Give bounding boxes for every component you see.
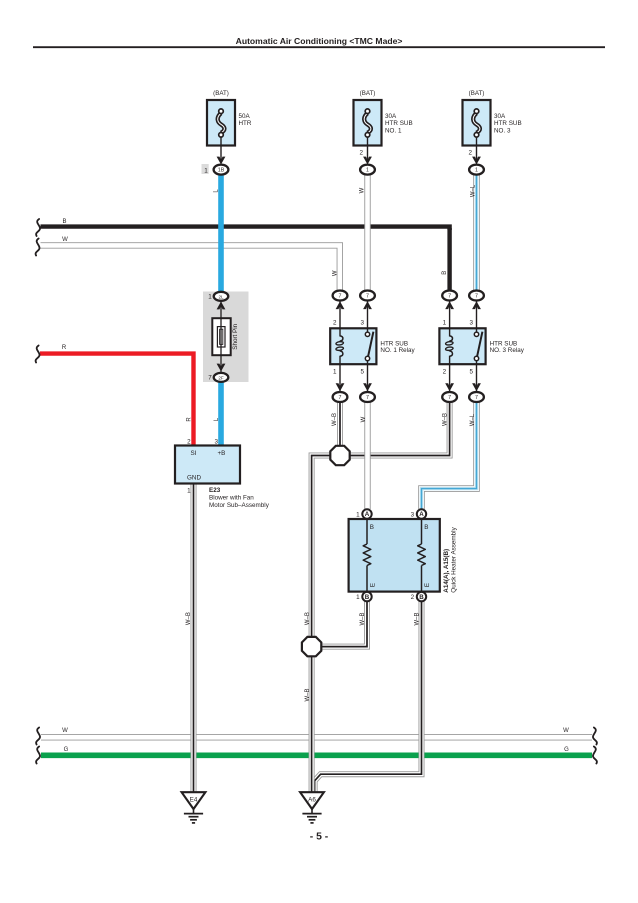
fusible link 30A HTR SUB NO. 1 [354,90,413,175]
svg-text:B: B [419,594,424,601]
svg-text:W–L: W–L [471,184,477,197]
svg-text:5: 5 [360,369,364,376]
svg-text:B: B [370,524,374,531]
wire W-B junction J1 to junction J2 [305,456,331,639]
svg-text:GND: GND [187,474,201,481]
svg-text:NO. 3: NO. 3 [494,128,511,135]
relay R1 pin2 connector [333,291,348,329]
svg-text:3: 3 [214,439,218,446]
wire W fuse HTR SUB NO.1 to relay R1 pin3 [360,174,368,293]
junction J2 [302,637,321,656]
svg-text:2: 2 [187,439,191,446]
wire W-L relay R3 pin5 to quick heater pin 3A [422,402,477,509]
svg-text:W: W [563,728,569,734]
relay R3 pin2 connector [442,364,457,402]
svg-text:7: 7 [366,294,369,300]
svg-text:7: 7 [339,294,342,300]
svg-text:(BAT): (BAT) [360,90,376,97]
heater element left [363,544,371,566]
svg-text:W: W [62,728,68,734]
wire W relay R1 pin5 to quick heater pin 1A [361,402,368,509]
svg-text:W–B: W–B [305,688,311,701]
svg-text:Blower with Fan: Blower with Fan [209,495,254,502]
svg-text:30A: 30A [494,113,506,120]
wire W-B relay R3 pin2 to junction J1 [349,402,450,456]
svg-text:E23: E23 [209,487,221,494]
svg-text:3: 3 [469,319,473,326]
short pin connector pin 1 (2L) [208,292,228,310]
svg-text:A: A [419,511,424,518]
relay R3 pin1 connector [442,291,457,329]
svg-text:(BAT): (BAT) [213,90,229,97]
svg-text:1: 1 [333,369,337,376]
svg-text:NO. 3 Relay: NO. 3 Relay [490,347,525,354]
svg-text:2: 2 [333,319,337,326]
svg-text:W: W [360,187,366,193]
svg-text:A6: A6 [308,797,316,804]
svg-text:E4: E4 [190,797,198,804]
wire B vertical drop to relay R3 pin1 [442,228,449,292]
short pin assembly panel [203,292,249,383]
svg-text:E: E [424,583,431,587]
svg-text:1: 1 [204,167,208,174]
svg-text:+B: +B [217,450,225,457]
svg-text:E: E [369,583,376,587]
svg-text:Motor Sub–Assembly: Motor Sub–Assembly [209,502,270,509]
svg-text:2: 2 [411,594,415,601]
svg-text:(BAT): (BAT) [469,90,485,97]
svg-text:1: 1 [356,511,360,518]
svg-text:7: 7 [448,395,451,401]
svg-text:1: 1 [475,168,478,174]
relay R3 pin5 connector [469,364,484,402]
svg-text:NO. 1 Relay: NO. 1 Relay [380,347,415,354]
svg-text:3: 3 [360,319,364,326]
relay HTR SUB NO.3 [439,319,524,375]
svg-text:7: 7 [208,375,212,382]
svg-text:Short Pin: Short Pin [232,323,239,349]
svg-text:B: B [365,594,370,601]
svg-text:7: 7 [339,395,342,401]
wire W-L fuse HTR SUB NO.3 to relay R3 pin3 [471,174,477,293]
svg-text:W: W [361,416,367,422]
svg-text:1: 1 [443,319,447,326]
wire L fuse HTR to short pin connector [214,174,221,292]
svg-text:7: 7 [448,294,451,300]
wire G ground rail (bottom) [36,747,597,764]
svg-text:W: W [62,237,68,243]
svg-text:2: 2 [359,150,363,157]
svg-text:W–L: W–L [470,413,476,426]
quick heater pin 3A [411,509,427,518]
ground A6 [300,792,324,809]
svg-text:7: 7 [475,294,478,300]
svg-text:B: B [424,524,428,531]
svg-text:W: W [332,270,338,276]
quick heater assembly A14/A15 [349,519,440,592]
wire W-B blower GND to ground E4 [186,484,194,792]
svg-text:B: B [442,271,448,275]
svg-text:2L: 2L [218,294,224,299]
svg-text:5: 5 [469,369,473,376]
svg-text:SI: SI [191,450,197,457]
svg-text:1: 1 [208,293,212,300]
short pin connector pin 7 (2F) [208,364,228,382]
title rule [33,46,605,48]
svg-text:2F: 2F [218,375,224,380]
svg-text:W–B: W–B [305,612,311,625]
wire W rail from left edge to relay R1 pin2 [36,237,340,293]
svg-text:1: 1 [187,487,191,494]
quick heater pin 2B [411,592,427,601]
svg-text:1B: 1B [218,168,225,174]
wire W-B junction J2 to ground A6 [305,656,312,792]
svg-text:2: 2 [468,150,472,157]
svg-text:G: G [64,747,69,753]
relay R3 pin3 connector [469,291,484,329]
svg-text:G: G [564,747,569,753]
svg-text:3: 3 [411,511,415,518]
quick heater pin 1B [356,592,372,601]
svg-text:1: 1 [356,594,360,601]
svg-text:A14(A), A15(B): A14(A), A15(B) [443,549,450,593]
quick heater pin 1A [356,509,372,518]
svg-text:HTR SUB: HTR SUB [494,120,522,127]
svg-text:HTR SUB: HTR SUB [385,120,413,127]
svg-text:W–B: W–B [332,413,338,426]
svg-text:A: A [365,511,370,518]
wire W-B quick heater pin 2B to ground A6 [315,602,422,792]
svg-text:B: B [62,219,66,225]
relay R1 pin3 connector [360,291,375,329]
wire W ground rail (bottom) [36,728,597,745]
svg-text:7: 7 [475,395,478,401]
svg-text:Quick Heater Assembly: Quick Heater Assembly [450,526,457,592]
wire B rail from left edge [36,219,450,236]
svg-text:HTR: HTR [239,120,252,127]
quick heater name label [443,526,457,592]
svg-text:W–B: W–B [360,612,366,625]
svg-text:50A: 50A [239,113,251,120]
junction J1 [330,446,349,465]
wire R from left edge to blower pin2 [36,345,194,445]
wire L short pin to blower +B [214,382,221,446]
svg-text:NO. 1: NO. 1 [385,128,402,135]
svg-text:2: 2 [443,369,447,376]
svg-text:W–B: W–B [186,612,192,625]
svg-text:R: R [62,345,67,351]
wire W-B relay R1 pin1 to junction J1 [332,402,340,447]
fusible link 30A HTR SUB NO. 3 [463,90,522,175]
quick heater terminal labels [369,524,431,587]
wire W-B quick heater pin 1B to junction J2 [321,602,367,647]
svg-text:W–B: W–B [443,413,449,426]
blower with fan motor E23 [175,439,270,509]
relay R1 pin1 connector [333,364,348,402]
svg-text:R: R [186,417,192,422]
svg-text:Automatic Air Conditioning <TM: Automatic Air Conditioning <TMC Made> [236,36,403,46]
svg-text:7: 7 [366,395,369,401]
svg-text:- 5 -: - 5 - [310,832,329,843]
ground E4 [182,792,206,809]
svg-text:W–B: W–B [414,612,420,625]
relay HTR SUB NO.1 [330,319,415,375]
svg-text:30A: 30A [385,113,397,120]
svg-text:1: 1 [366,168,369,174]
relay R1 pin5 connector [360,364,375,402]
fusible link 50A HTR [202,90,252,175]
heater element right [418,544,426,566]
